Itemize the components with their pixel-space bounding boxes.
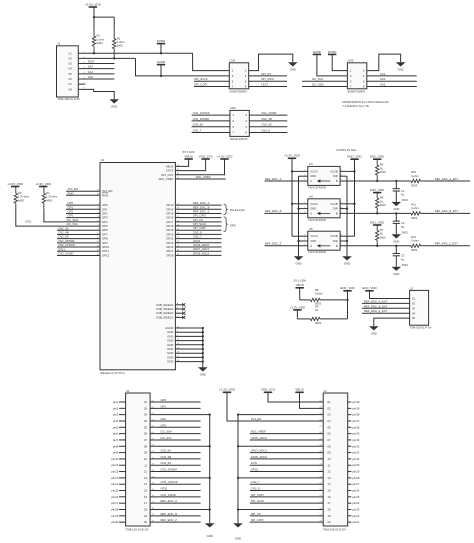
svg-text:pin24: pin24 — [352, 501, 359, 505]
wire — [340, 212, 411, 214]
svg-text:ENC_VDD: ENC_VDD — [370, 188, 385, 192]
svg-text:17: 17 — [327, 501, 331, 505]
wire — [348, 445, 352, 447]
svg-text:ENC_VDD: ENC_VDD — [362, 286, 377, 290]
wire — [348, 401, 352, 403]
wire to ground — [367, 54, 401, 71]
wire — [119, 458, 126, 460]
junction — [160, 75, 162, 77]
resistor R1 — [92, 29, 105, 53]
svg-text:12: 12 — [327, 470, 331, 474]
wire no-connect — [175, 312, 183, 314]
svg-text:SPI_COPI: SPI_COPI — [194, 83, 207, 87]
power DVDD — [328, 50, 337, 55]
wire — [265, 212, 308, 214]
wire — [175, 335, 202, 337]
svg-text:0-ohm: 0-ohm — [411, 206, 419, 210]
wire — [348, 496, 352, 498]
wire — [249, 114, 287, 116]
wire — [250, 521, 323, 523]
svg-text:07: 07 — [327, 438, 331, 442]
svg-text:CN2_5A: CN2_5A — [193, 123, 204, 127]
svg-text:+3.3V_VDD: +3.3V_VDD — [85, 2, 102, 6]
power VBUS — [294, 279, 307, 288]
wire — [150, 521, 201, 523]
svg-text:13: 13 — [327, 476, 331, 480]
wire — [250, 490, 323, 492]
wire — [150, 471, 201, 473]
junction — [93, 52, 95, 54]
ground — [342, 256, 352, 265]
svg-text:ADC_VREF: ADC_VREF — [251, 430, 266, 434]
wire — [250, 483, 323, 485]
wire — [250, 515, 323, 517]
svg-text:pin12: pin12 — [111, 470, 118, 474]
svg-text:DIR: DIR — [333, 239, 338, 243]
svg-text:J3: J3 — [126, 389, 129, 393]
wire — [119, 496, 126, 498]
svg-text:pin29: pin29 — [352, 470, 359, 474]
pin names U2 right top — [158, 164, 179, 181]
wire ENC_VDD rail — [354, 159, 356, 236]
svg-text:0603: 0603 — [380, 203, 386, 207]
wire — [150, 439, 201, 441]
svg-text:NL: NL — [380, 166, 384, 170]
wire — [66, 190, 100, 192]
svg-text:NL: NL — [401, 225, 405, 229]
svg-text:19: 19 — [327, 514, 331, 518]
wire — [320, 299, 348, 301]
svg-text:01: 01 — [144, 400, 148, 404]
capacitor C2 — [393, 221, 400, 223]
wire — [192, 114, 230, 116]
svg-text:NL: NL — [401, 193, 405, 197]
connector J3 — [126, 393, 151, 526]
svg-text:A: A — [310, 244, 312, 248]
connector CN2 — [230, 110, 249, 136]
power +3.3V_VDD — [85, 2, 102, 7]
svg-text:03: 03 — [144, 413, 148, 417]
svg-text:SPI_CS: SPI_CS — [261, 72, 271, 76]
ic U3 74LVC1T45 — [308, 166, 340, 185]
wire — [119, 515, 126, 517]
pin numbers CN3 — [350, 69, 365, 89]
wire — [250, 452, 323, 454]
power +3.3V_VDD — [7, 182, 24, 187]
wire AVDD bus — [78, 57, 135, 59]
svg-text:pin38: pin38 — [352, 413, 359, 417]
wire — [238, 477, 323, 479]
junction — [376, 245, 378, 247]
wire — [250, 433, 323, 435]
svg-text:GP28_ADC2: GP28_ADC2 — [193, 251, 210, 255]
svg-text:C3: C3 — [401, 254, 405, 258]
wire — [192, 132, 230, 134]
wire — [340, 203, 354, 205]
junction — [237, 445, 239, 447]
svg-text:DIR: DIR — [333, 207, 338, 211]
junction — [297, 207, 299, 209]
wire — [421, 180, 471, 182]
no-connect X — [182, 316, 185, 319]
svg-text:CN2_7: CN2_7 — [251, 480, 260, 484]
wire — [348, 458, 352, 460]
svg-text:02: 02 — [327, 406, 331, 410]
wire — [340, 235, 354, 237]
wire 3V3 rail — [291, 158, 293, 236]
svg-text:05: 05 — [69, 72, 73, 76]
svg-text:pin13: pin13 — [111, 476, 118, 480]
svg-text:SPI_CIPO: SPI_CIPO — [261, 77, 275, 81]
no-connect X — [182, 303, 185, 306]
label C1 — [401, 189, 408, 202]
svg-text:GND: GND — [393, 207, 399, 211]
svg-text:VBUS: VBUS — [295, 388, 303, 392]
svg-text:TSM-105-01-F-SV: TSM-105-01-F-SV — [410, 326, 432, 330]
junction — [376, 180, 378, 182]
svg-text:R9: R9 — [315, 304, 319, 308]
wire — [265, 180, 308, 182]
wire — [299, 208, 308, 210]
wire — [150, 508, 210, 510]
label C3 — [401, 254, 408, 267]
wire no-connect — [175, 304, 183, 306]
junction — [237, 508, 239, 510]
svg-text:08: 08 — [69, 87, 73, 91]
connector CN3 — [347, 63, 366, 89]
svg-text:GND: GND — [393, 239, 399, 243]
wire I2C_SCL — [16, 210, 100, 226]
svg-text:0402: 0402 — [46, 198, 52, 202]
wire — [93, 7, 95, 17]
svg-text:3V3_EN: 3V3_EN — [251, 417, 261, 421]
svg-text:REF_ENC_Z: REF_ENC_Z — [265, 242, 282, 246]
wire — [57, 233, 100, 235]
svg-text:15: 15 — [144, 489, 148, 493]
svg-text:GND: GND — [344, 262, 350, 266]
svg-text:pin14: pin14 — [111, 482, 118, 486]
junction — [395, 245, 397, 247]
wire — [119, 401, 126, 403]
wire — [175, 225, 221, 227]
wire — [150, 407, 201, 409]
svg-text:CN2: CN2 — [230, 106, 236, 110]
svg-text:16: 16 — [144, 495, 148, 499]
junction — [113, 57, 115, 59]
svg-text:0603: 0603 — [402, 263, 408, 267]
svg-text:TSM-120-01-E-SV: TSM-120-01-E-SV — [323, 528, 346, 532]
pin numbers CN1 — [232, 69, 247, 89]
svg-text:SA2: SA2 — [380, 83, 386, 87]
svg-text:GP12: GP12 — [102, 253, 110, 257]
svg-text:J1: J1 — [57, 42, 60, 46]
wire — [175, 250, 221, 252]
wire — [78, 68, 114, 70]
wire — [119, 407, 126, 409]
svg-text:GP28_ADC2: GP28_ADC2 — [251, 436, 268, 440]
wire — [119, 414, 126, 416]
wire — [362, 307, 410, 309]
ground — [288, 62, 298, 71]
junction — [395, 212, 397, 214]
ground — [205, 523, 215, 538]
svg-text:GP22: GP22 — [251, 468, 259, 472]
svg-text:REF_ENC_A: REF_ENC_A — [161, 499, 178, 503]
port labels pin1-pin20 — [111, 400, 118, 524]
wire — [421, 212, 471, 214]
svg-text:VBUS: VBUS — [185, 154, 193, 158]
wire — [57, 242, 100, 244]
ground — [392, 234, 402, 243]
svg-text:0603: 0603 — [402, 198, 408, 202]
resistor R3 — [14, 187, 30, 211]
wire no-connect — [175, 316, 183, 318]
wire — [348, 414, 352, 416]
svg-text:05: 05 — [327, 425, 331, 429]
svg-text:I2C0: I2C0 — [25, 220, 31, 224]
svg-text:pin23: pin23 — [352, 507, 359, 511]
wire — [175, 344, 202, 346]
svg-text:TEST: TEST — [88, 60, 95, 64]
wire — [57, 246, 100, 248]
svg-text:1.7k-ohm: 1.7k-ohm — [46, 195, 58, 199]
wire GND rail — [298, 176, 300, 256]
wire — [292, 235, 308, 237]
power +3.3V_VDD — [284, 154, 301, 159]
ground — [392, 202, 402, 211]
wire VBUS to J4 — [300, 392, 324, 408]
svg-text:Raspberry Pi Pico: Raspberry Pi Pico — [101, 371, 125, 375]
wire — [150, 464, 201, 466]
junction — [209, 477, 211, 479]
wire — [94, 16, 114, 18]
svg-text:REF_ENC_A_EXT: REF_ENC_A_EXT — [435, 177, 459, 181]
wire — [66, 217, 100, 219]
svg-text:CN2_8: CN2_8 — [251, 487, 260, 491]
resistor R11 — [411, 212, 421, 215]
svg-text:pin5: pin5 — [113, 425, 119, 429]
wire — [175, 327, 202, 329]
junction — [202, 331, 204, 333]
svg-text:J4: J4 — [324, 389, 327, 393]
wire — [250, 471, 323, 473]
wire — [348, 452, 352, 454]
pin names U3 — [304, 169, 343, 183]
svg-text:B: B — [336, 211, 338, 215]
svg-text:VCCB 5.9V Max: VCCB 5.9V Max — [336, 148, 357, 152]
wire — [265, 245, 308, 247]
svg-text:05: 05 — [144, 425, 148, 429]
svg-text:0603: 0603 — [402, 230, 408, 234]
svg-text:CN2_2/NSD: CN2_2/NSD — [261, 111, 276, 115]
svg-text:01: 01 — [69, 51, 73, 55]
svg-text:SPI_SCLK: SPI_SCLK — [251, 499, 265, 503]
junction — [202, 348, 204, 350]
power +3.3V_VDD — [219, 388, 236, 393]
svg-text:18: 18 — [144, 508, 148, 512]
junction — [209, 413, 211, 415]
wire — [362, 302, 410, 304]
wire — [348, 407, 352, 409]
svg-text:NL: NL — [315, 308, 319, 312]
wire — [150, 401, 201, 403]
power +3.3V_VDD — [217, 154, 234, 159]
wire I2C_SDA — [44, 210, 100, 222]
svg-text:1.7k-ohm: 1.7k-ohm — [18, 195, 30, 199]
wire — [175, 229, 221, 231]
wire — [250, 496, 323, 498]
wire — [150, 490, 201, 492]
ground — [198, 367, 208, 376]
wire — [150, 496, 201, 498]
svg-text:A: A — [310, 211, 312, 215]
svg-text:GND: GND — [235, 537, 241, 541]
svg-text:TSM-108-01-F-SV: TSM-108-01-F-SV — [58, 97, 81, 101]
svg-text:17: 17 — [144, 501, 148, 505]
svg-text:09: 09 — [327, 451, 331, 455]
wire — [57, 254, 100, 256]
svg-text:CN2_2/NSD: CN2_2/NSD — [58, 251, 73, 255]
junction — [202, 344, 204, 346]
svg-text:01: 01 — [327, 400, 331, 404]
svg-text:pin35: pin35 — [352, 432, 359, 436]
wire — [302, 80, 347, 82]
svg-text:CN2_7: CN2_7 — [193, 129, 202, 133]
resistor R9 — [311, 317, 321, 320]
wire — [66, 204, 100, 206]
svg-text:CN2_8: CN2_8 — [261, 129, 270, 133]
svg-text:pin4: pin4 — [113, 419, 119, 423]
ground — [109, 99, 119, 108]
wire — [348, 515, 352, 517]
svg-text:pin2: pin2 — [113, 406, 119, 410]
resistor R2 — [113, 29, 126, 58]
svg-text:SPI0: SPI0 — [230, 224, 236, 228]
wire — [175, 331, 202, 333]
svg-text:CN2_6Z: CN2_6Z — [261, 123, 272, 127]
wire — [175, 340, 202, 342]
wire DVDD bus to CN1 — [193, 53, 230, 70]
capacitor C3 — [393, 254, 400, 256]
power +3.3V_VDD — [290, 305, 305, 310]
junction — [346, 299, 348, 301]
wire — [348, 439, 352, 441]
wire — [340, 180, 411, 182]
svg-text:0402: 0402 — [97, 41, 103, 45]
wire — [250, 502, 323, 504]
wire — [78, 63, 114, 65]
svg-text:REF_ENC_A: REF_ENC_A — [265, 177, 282, 181]
wire — [395, 223, 397, 234]
wire — [238, 414, 323, 416]
wire — [320, 318, 348, 320]
wire DVDD bus — [78, 52, 192, 54]
svg-text:pin18: pin18 — [111, 507, 118, 511]
wire — [348, 471, 352, 473]
wire to ground — [374, 318, 410, 326]
wire — [119, 502, 126, 504]
svg-text:691667200976: 691667200976 — [348, 89, 366, 93]
wire — [119, 452, 126, 454]
svg-text:pin33: pin33 — [352, 444, 359, 448]
svg-text:I2C_SDA: I2C_SDA — [161, 430, 173, 434]
svg-text:GND: GND — [397, 68, 403, 72]
svg-text:CN2_3/PWM: CN2_3/PWM — [161, 468, 178, 472]
wire — [119, 471, 126, 473]
svg-text:R7: R7 — [380, 228, 384, 232]
svg-text:SA1: SA1 — [88, 70, 94, 74]
svg-text:USB_SHIELD: USB_SHIELD — [156, 315, 173, 319]
wire — [395, 191, 397, 202]
junction — [202, 327, 204, 329]
svg-text:04: 04 — [412, 311, 415, 315]
capacitor C1 — [393, 189, 400, 191]
pin names U4 — [304, 202, 343, 216]
svg-text:SA2: SA2 — [88, 65, 94, 69]
wire GND bus — [209, 415, 211, 524]
pin names U5 — [304, 234, 343, 248]
svg-text:R3: R3 — [18, 191, 22, 195]
svg-text:14: 14 — [144, 482, 148, 486]
svg-text:13: 13 — [144, 476, 148, 480]
resistor R6 — [376, 193, 387, 214]
junction — [209, 508, 211, 510]
wire — [340, 245, 411, 247]
svg-text:CN2_1/NSCK: CN2_1/NSCK — [193, 111, 210, 115]
label C2 — [401, 221, 408, 234]
svg-text:CN2_2/NSD: CN2_2/NSD — [161, 493, 176, 497]
wire — [57, 229, 100, 231]
svg-text:07: 07 — [144, 438, 148, 442]
svg-text:R8: R8 — [315, 288, 319, 292]
svg-text:09: 09 — [144, 451, 148, 455]
brace Ref Encoder — [224, 204, 228, 214]
svg-text:B: B — [336, 179, 338, 183]
svg-text:RUN: RUN — [102, 193, 108, 197]
svg-text:REF_ENC_Z_EXT: REF_ENC_Z_EXT — [364, 309, 388, 313]
svg-text:08: 08 — [144, 444, 148, 448]
wire — [119, 521, 126, 523]
svg-text:CN2_6Z: CN2_6Z — [161, 461, 172, 465]
svg-text:I2C_SCL: I2C_SCL — [312, 77, 324, 81]
svg-text:ENC_VDD: ENC_VDD — [347, 155, 362, 159]
svg-text:04: 04 — [327, 419, 331, 423]
wire 3V3_OUT — [175, 159, 224, 175]
svg-text:SPI_COPI: SPI_COPI — [251, 493, 264, 497]
svg-text:03: 03 — [327, 413, 331, 417]
wire — [292, 203, 308, 205]
wire — [119, 477, 126, 479]
pin names GND — [165, 326, 180, 364]
power ENC_VDD — [340, 286, 355, 291]
svg-text:ENC_VDD: ENC_VDD — [340, 286, 355, 290]
svg-text:GND: GND — [310, 174, 316, 178]
wire — [175, 238, 221, 240]
svg-text:DVDD: DVDD — [328, 50, 337, 54]
wire — [296, 310, 298, 319]
power ENC_VDD — [347, 155, 362, 160]
svg-text:GP26_ADC0: GP26_ADC0 — [251, 455, 268, 459]
svg-text:pin9: pin9 — [113, 451, 119, 455]
svg-text:pin22: pin22 — [352, 514, 359, 518]
wire — [249, 80, 287, 82]
wire to ground — [249, 54, 293, 71]
wire VDD_SYS — [175, 159, 205, 171]
wire 3V3 to J4 — [227, 392, 323, 421]
svg-text:15: 15 — [327, 489, 331, 493]
power VBUS — [295, 388, 303, 393]
junction — [209, 445, 211, 447]
